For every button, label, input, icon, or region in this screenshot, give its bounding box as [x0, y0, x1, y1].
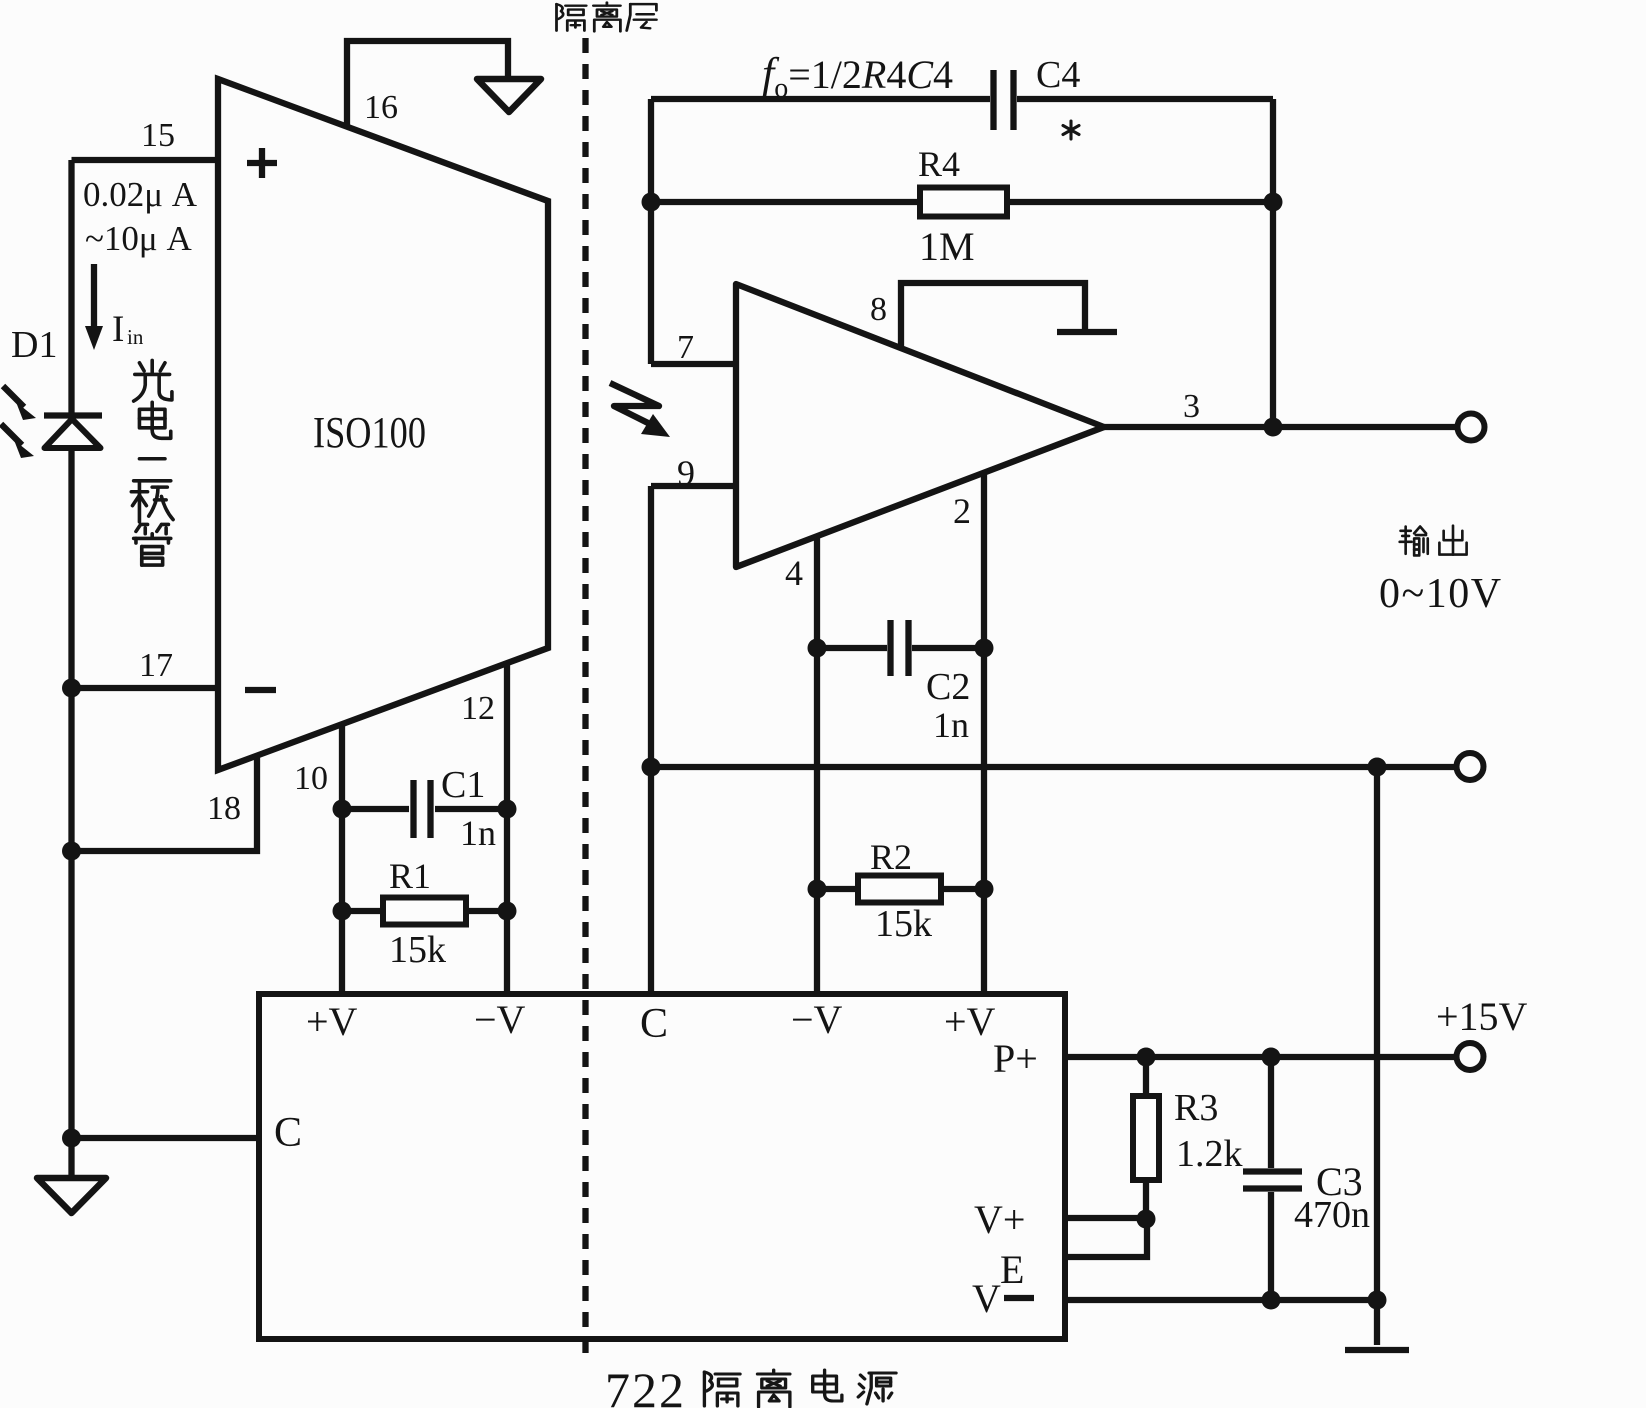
- capacitor C3: [1243, 1057, 1302, 1300]
- ground (output side bottom bar): [1345, 1347, 1409, 1353]
- junction node rail-left: [642, 758, 661, 777]
- caption 隔离电源: [704, 1370, 896, 1407]
- svg-text:+15V: +15V: [1436, 994, 1528, 1039]
- wire: right ground vertical: [1374, 767, 1380, 1345]
- junction node pin18: [62, 842, 81, 861]
- light arrow 2 into D1: [1, 424, 34, 458]
- wire: feedback left vertical: [648, 99, 654, 364]
- junction nodes R4: [642, 193, 661, 212]
- ground (input side bottom): [37, 1178, 106, 1213]
- photodiode D1: [44, 416, 102, 449]
- op-amp U1 ISO100 body: [218, 79, 548, 770]
- wire: pin 10 down to 722 +V: [339, 724, 345, 994]
- ground (input side top): [477, 79, 541, 112]
- ISO100 plus input marker: [247, 148, 277, 178]
- svg-text:C: C: [640, 1001, 668, 1047]
- wire: pin 4 down: [814, 536, 820, 994]
- light arrow 1 into D1: [3, 386, 36, 420]
- svg-text:fo=1/2R4C4: fo=1/2R4C4: [762, 49, 953, 104]
- svg-text:+V: +V: [944, 999, 996, 1044]
- svg-text:0~10V: 0~10V: [1379, 571, 1503, 617]
- svg-text:1n: 1n: [933, 705, 969, 745]
- wire: pin 16 to ground: [347, 41, 508, 127]
- svg-text:1M: 1M: [919, 224, 975, 269]
- wire: P+ +15V rail: [1065, 1054, 1456, 1060]
- junction nodes R1: [333, 902, 352, 921]
- svg-text:in: in: [127, 325, 144, 349]
- wire: V+ pin: [1065, 1215, 1146, 1221]
- svg-text:E: E: [1000, 1247, 1024, 1292]
- svg-text:R4: R4: [918, 144, 960, 184]
- wire: feedback right vertical: [1270, 99, 1276, 427]
- junction nodes on P+ rail: [1137, 1048, 1156, 1067]
- wire: pin9/common down to 722 C: [648, 486, 654, 994]
- junction nodes R2: [808, 880, 827, 899]
- svg-text:18: 18: [207, 790, 241, 827]
- junction node pin17: [62, 679, 81, 698]
- resistor R2: [817, 876, 984, 903]
- op-amp U2: [736, 284, 1104, 567]
- wire: pin 9: [651, 483, 736, 489]
- resistor R1: [342, 898, 507, 925]
- wire: output common rail: [651, 764, 1456, 770]
- svg-text:P+: P+: [993, 1036, 1038, 1081]
- junction node output: [1264, 418, 1283, 437]
- wire: pin 12 down to 722 -V: [504, 664, 510, 994]
- svg-text:−V: −V: [474, 997, 526, 1042]
- svg-text:I: I: [112, 309, 124, 350]
- wire: pin 17: [72, 685, 219, 691]
- svg-text:10: 10: [294, 760, 328, 797]
- wire: pin 15 to ISO100: [72, 157, 219, 163]
- wire: V- pin: [1065, 1297, 1377, 1303]
- svg-text:8: 8: [870, 291, 887, 328]
- isolation barrier dashed line: [582, 38, 588, 1363]
- wire: E pin: [1065, 1222, 1147, 1257]
- junction node rail-right: [1368, 758, 1387, 777]
- svg-text:9: 9: [677, 453, 695, 493]
- svg-text:1n: 1n: [460, 813, 496, 853]
- junction nodes C2: [808, 639, 827, 658]
- output terminal upper: [1458, 414, 1485, 441]
- svg-text:16: 16: [364, 89, 398, 126]
- svg-text:C1: C1: [441, 764, 485, 806]
- svg-text:C2: C2: [926, 666, 970, 708]
- junction node C: [62, 1129, 81, 1148]
- svg-text:0.02μ A: 0.02μ A: [83, 175, 198, 214]
- svg-text:R3: R3: [1174, 1087, 1218, 1129]
- svg-text:ISO100: ISO100: [313, 408, 426, 457]
- svg-text:1.2k: 1.2k: [1176, 1133, 1243, 1175]
- wire: pin 7: [651, 361, 736, 367]
- wire: C pin of 722 to input common: [72, 1135, 260, 1141]
- svg-text:12: 12: [461, 690, 495, 727]
- junction nodes V- rail: [1262, 1291, 1281, 1310]
- svg-text:~10μ A: ~10μ A: [85, 219, 192, 258]
- svg-text:470n: 470n: [1294, 1194, 1370, 1236]
- svg-text:V+: V+: [974, 1197, 1025, 1242]
- resistor R3: [1133, 1057, 1159, 1220]
- capacitor C2: [817, 620, 984, 676]
- wire: pin 18: [72, 754, 258, 851]
- svg-text:15k: 15k: [389, 929, 446, 971]
- capacitor C4: [651, 70, 1273, 130]
- wire: pin 2 down: [981, 472, 987, 994]
- svg-text:−V: −V: [791, 997, 843, 1042]
- 722 isolated DC/DC converter block: [259, 994, 1065, 1339]
- svg-text:15: 15: [141, 117, 175, 154]
- C4 star mark: [1063, 121, 1079, 139]
- svg-text:C: C: [274, 1110, 302, 1156]
- svg-text:+V: +V: [306, 999, 358, 1044]
- ground (pin 8 bar): [1057, 329, 1117, 335]
- wire: left input rail: [68, 160, 74, 1178]
- wire: output pin 3: [1104, 424, 1457, 430]
- svg-text:V: V: [972, 1276, 1001, 1321]
- Iin current arrow: [91, 264, 97, 330]
- svg-text:17: 17: [139, 647, 173, 684]
- photodiode label 光电二极管: [131, 360, 173, 565]
- svg-text:R2: R2: [870, 837, 912, 877]
- svg-text:722: 722: [605, 1362, 686, 1408]
- output terminal lower: [1457, 753, 1484, 780]
- svg-text:3: 3: [1183, 388, 1200, 425]
- +15V terminal: [1457, 1043, 1484, 1070]
- optocoupler light arrow: [610, 383, 670, 437]
- isolation layer label 隔离层: [557, 3, 657, 32]
- wire: pin 8 to ground: [901, 283, 1085, 348]
- capacitor C1: [342, 780, 507, 838]
- svg-text:7: 7: [677, 329, 694, 366]
- svg-text:D1: D1: [11, 324, 57, 366]
- junction nodes C1: [333, 800, 352, 819]
- junction node R3 bottom: [1137, 1210, 1156, 1229]
- svg-text:R1: R1: [389, 856, 431, 896]
- resistor R4: [651, 188, 1273, 217]
- svg-text:2: 2: [953, 491, 971, 531]
- output label 输出: [1400, 526, 1467, 556]
- svg-text:4: 4: [785, 553, 803, 593]
- svg-text:C4: C4: [1036, 54, 1080, 96]
- ISO100 minus input marker: [245, 687, 276, 693]
- svg-text:15k: 15k: [875, 903, 932, 945]
